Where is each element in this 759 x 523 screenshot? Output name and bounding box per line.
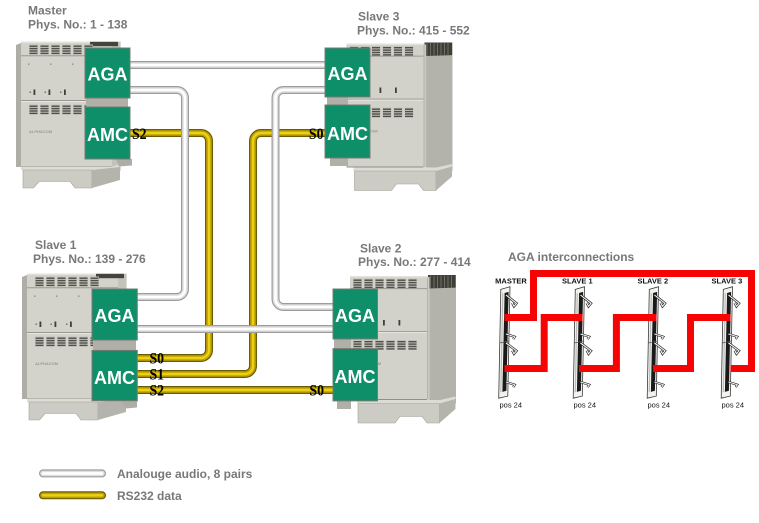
svg-text:pos 24: pos 24	[722, 401, 745, 410]
wire RS232 Slave3 S0 to Slave1 S1	[136, 133, 327, 374]
svg-text:Phys. No.: 277 - 414: Phys. No.: 277 - 414	[358, 255, 471, 269]
svg-text:MASTER: MASTER	[495, 276, 527, 285]
mounting rail gap Slave 1	[93, 340, 136, 350]
mounting rail end below Master AMC	[116, 159, 132, 167]
AGA board Slave 3	[325, 48, 370, 97]
svg-text:SLAVE 2: SLAVE 2	[637, 276, 668, 285]
mounting rail gap Slave 3	[327, 97, 348, 105]
svg-text:Analouge audio, 8 pairs: Analouge audio, 8 pairs	[117, 467, 253, 481]
cabinet Slave 2	[350, 275, 456, 423]
AMC board Master	[85, 107, 130, 159]
wire RS232 Master S2 to Slave1 S0	[128, 133, 209, 358]
svg-text:AMC: AMC	[335, 367, 376, 387]
svg-text:AMC: AMC	[87, 125, 128, 145]
svg-text:S2: S2	[150, 383, 165, 400]
AMC board Slave 1	[92, 350, 137, 400]
svg-text:AGA: AGA	[88, 65, 128, 85]
legend audio cable sample	[43, 469, 102, 477]
connector panel SLAVE 1	[573, 287, 591, 399]
mounting rail gap below Slave 2 AMC	[337, 401, 351, 409]
connector panel SLAVE 2	[647, 287, 665, 399]
svg-text:Slave 1: Slave 1	[35, 238, 77, 252]
AGA board Master	[85, 48, 130, 98]
red wire Master upper to Slave3 lower via top rail	[505, 274, 752, 369]
svg-text:SLAVE 3: SLAVE 3	[712, 276, 743, 285]
wire audio Master AGA to Slave3 AGA	[128, 61, 327, 69]
AMC board Slave 3	[325, 105, 370, 158]
red wire Slave2 lower to Slave3 upper	[653, 318, 731, 369]
svg-text:pos 24: pos 24	[648, 401, 671, 410]
svg-text:Phys. No.: 415 - 552: Phys. No.: 415 - 552	[357, 24, 470, 38]
svg-text:AGA: AGA	[95, 306, 135, 326]
connector panel MASTER	[499, 287, 517, 399]
legend RS232 cable sample	[43, 491, 102, 499]
mounting rail gap below Slave 3 AMC	[330, 158, 348, 166]
mounting rail gap Slave 2	[334, 339, 351, 349]
svg-text:Phys. No.: 1 - 138: Phys. No.: 1 - 138	[28, 17, 128, 31]
svg-text:AGA interconnections: AGA interconnections	[508, 250, 635, 264]
red wire Slave1 lower to Slave2 upper	[579, 318, 657, 369]
svg-text:S1: S1	[150, 367, 165, 384]
svg-text:AMC: AMC	[94, 368, 135, 388]
svg-text:pos 24: pos 24	[574, 401, 597, 410]
svg-text:S0: S0	[309, 383, 324, 400]
AMC board Slave 2	[333, 349, 378, 401]
svg-text:S2: S2	[132, 126, 147, 143]
AGA board Slave 1	[92, 289, 137, 340]
connector panel SLAVE 3	[721, 287, 739, 399]
mounting rail end below Slave 1 AMC	[122, 401, 137, 409]
svg-text:Slave 3: Slave 3	[358, 10, 400, 24]
red wire Master lower to Slave1 upper	[505, 318, 583, 369]
wire RS232 Slave1 S2 to Slave2 S0	[136, 386, 334, 394]
svg-text:AGA: AGA	[335, 306, 375, 326]
svg-text:Slave 2: Slave 2	[360, 241, 402, 255]
svg-text:Master: Master	[28, 4, 67, 18]
svg-text:pos 24: pos 24	[500, 401, 523, 410]
svg-text:AGA: AGA	[328, 64, 368, 84]
wire audio Slave3 AGA to Slave2 AGA	[276, 90, 335, 307]
svg-text:S0: S0	[309, 126, 324, 143]
svg-text:AMC: AMC	[327, 124, 368, 144]
AGA board Slave 2	[333, 289, 378, 339]
cabinet Slave 1	[22, 274, 127, 421]
svg-text:SLAVE 1: SLAVE 1	[562, 276, 593, 285]
svg-text:RS232 data: RS232 data	[117, 489, 182, 503]
cabinet Slave 3	[347, 43, 453, 191]
mounting rail gap Master	[86, 98, 128, 107]
svg-text:Phys. No.: 139 - 276: Phys. No.: 139 - 276	[33, 252, 146, 266]
svg-text:S0: S0	[150, 351, 165, 368]
cabinet Master	[16, 42, 121, 189]
wire audio Master AGA to Slave1 AGA	[128, 90, 185, 297]
wire audio Slave1 AGA to Slave2 AGA	[136, 325, 334, 333]
